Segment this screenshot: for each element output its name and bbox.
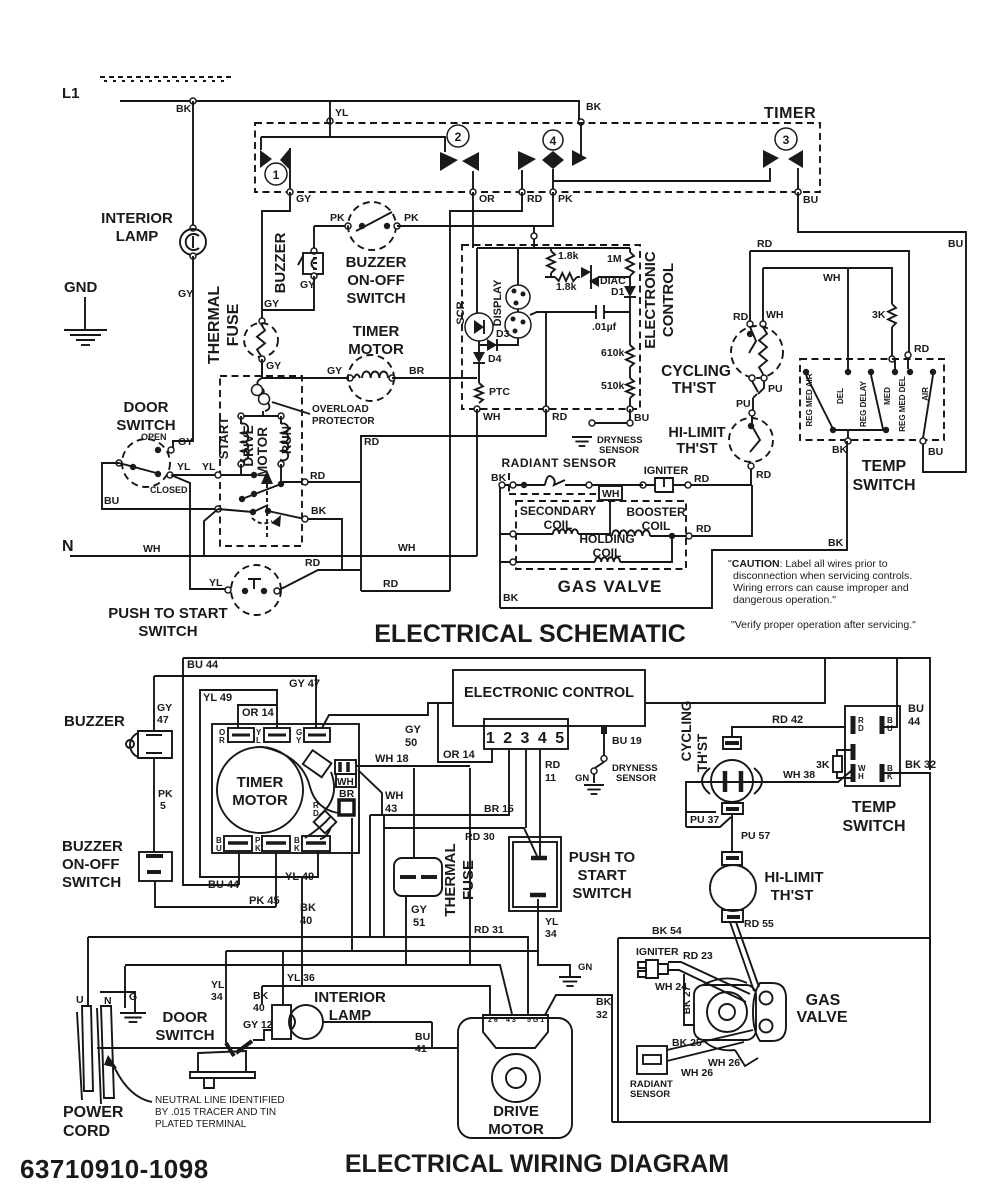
svg-text:.01µf: .01µf: [592, 321, 617, 333]
svg-text:U: U: [216, 844, 222, 853]
svg-text:BK: BK: [176, 103, 192, 115]
timer contact 1 arrows: [260, 148, 290, 170]
svg-text:BK: BK: [300, 902, 316, 914]
svg-text:50: 50: [405, 737, 417, 749]
wire buzzer to switch: [153, 758, 155, 852]
svg-text:POWER: POWER: [63, 1104, 124, 1121]
run winding label: [279, 426, 294, 454]
svg-text:BK: BK: [832, 444, 848, 456]
wire label RD 42: [772, 714, 803, 726]
wire BU44 bottom label: [208, 879, 240, 891]
svg-text:THERMAL: THERMAL: [206, 286, 223, 364]
node buzzer bottom: [311, 273, 317, 279]
temp switch label: [852, 458, 915, 494]
reg delay label: [859, 380, 868, 427]
holding coil label: [579, 532, 634, 560]
caution text: [728, 558, 888, 570]
svg-text:YL: YL: [545, 916, 559, 928]
svg-text:WH: WH: [337, 777, 354, 788]
centrifugal blade 2: [250, 505, 281, 527]
svg-text:PLATED TERMINAL: PLATED TERMINAL: [155, 1119, 247, 1130]
svg-text:610k: 610k: [601, 347, 625, 359]
push to start PS2: [509, 837, 561, 911]
wire d1 down: [629, 297, 631, 312]
wire label WH 38: [783, 769, 815, 781]
node BK temp: [832, 438, 851, 456]
svg-text:WH: WH: [483, 411, 501, 423]
node buzzer switch right: [394, 223, 400, 229]
svg-text:DOOR: DOOR: [124, 399, 169, 416]
wire d3 row: [479, 338, 518, 345]
svg-text:disconnection when servicing c: disconnection when servicing controls.: [733, 570, 912, 582]
power cord label: [63, 1104, 124, 1140]
svg-text:Y: Y: [296, 736, 302, 745]
booster coil L2: [612, 530, 650, 536]
svg-text:BK: BK: [503, 592, 519, 604]
capacitor C1: [596, 305, 604, 319]
terminal GY top: [296, 728, 330, 745]
node cycling left: [733, 311, 753, 327]
wire label GY tm: [327, 365, 342, 377]
wire label RD 55: [744, 918, 774, 930]
timer motor box w: [212, 724, 359, 853]
svg-text:TIMER: TIMER: [764, 105, 816, 122]
wire label WH 43: [385, 790, 403, 815]
neutral text: [155, 1095, 285, 1130]
node dryness left: [589, 420, 595, 426]
wire lamp to door switch: [173, 256, 193, 448]
svg-text:BK 32: BK 32: [905, 759, 936, 771]
wire EC left rail: [476, 248, 478, 314]
svg-text:DEL: DEL: [836, 388, 845, 404]
bk27 bracket: [684, 974, 694, 1025]
svg-text:RD: RD: [757, 238, 773, 250]
node buzzer top: [311, 248, 317, 254]
svg-text:NEUTRAL LINE IDENTIFIED: NEUTRAL LINE IDENTIFIED: [155, 1095, 285, 1106]
svg-text:SWITCH: SWITCH: [572, 885, 631, 902]
wire label YL door 2: [202, 461, 216, 473]
wire BU term down: [238, 851, 240, 885]
svg-text:START: START: [578, 867, 627, 884]
gas valve flange: [753, 983, 786, 1041]
wire label GY buzzer: [300, 279, 315, 291]
wire BU EC to dryness: [594, 409, 630, 423]
door switch prongs: [226, 1041, 252, 1056]
thermal fuse label vertical: [206, 286, 242, 364]
timer contact 2 stub: [472, 171, 474, 189]
wire booster out: [650, 535, 672, 537]
wire rd42: [732, 727, 845, 737]
wire secondary row: [516, 533, 553, 535]
svg-text:YL 36: YL 36: [287, 972, 315, 984]
svg-text:R: R: [219, 736, 225, 745]
svg-text:DRIVE: DRIVE: [241, 425, 256, 466]
wire wh18 drop: [469, 768, 471, 966]
svg-text:K: K: [294, 844, 300, 853]
wire label GY 50: [405, 724, 422, 749]
thermal fuse F1: [244, 323, 278, 357]
svg-text:TIMER: TIMER: [237, 774, 284, 791]
wire label GY 47 buzzer: [157, 702, 172, 726]
svg-text:REG MED DEL: REG MED DEL: [898, 376, 907, 432]
wire WH drop gas: [609, 500, 611, 536]
wire thermal fuse wires: [406, 768, 414, 965]
buzzer on-off switch label: [346, 254, 407, 307]
svg-text:BU: BU: [908, 703, 924, 715]
svg-text:GY 12: GY 12: [243, 1019, 273, 1031]
wire rd55: [730, 922, 759, 991]
svg-text:2: 2: [455, 130, 462, 144]
wire BU rail: [798, 192, 966, 472]
temp switch stubs: [895, 358, 908, 369]
overload protector label: [312, 404, 375, 427]
neutral pointer: [104, 1055, 152, 1102]
scr label: [455, 301, 467, 324]
temp switch dashed box: [800, 359, 944, 440]
temp switch label w: [842, 799, 905, 835]
svg-text:1: 1: [273, 168, 280, 182]
ptc label: [489, 386, 510, 398]
wire label BK 40 mid: [300, 902, 316, 927]
svg-text:HI-LIMIT: HI-LIMIT: [764, 869, 823, 886]
wire BK drop to contact 4: [580, 122, 582, 156]
door switch label w: [155, 1009, 214, 1044]
svg-text:START: START: [216, 417, 231, 459]
wire label BR tm: [409, 365, 425, 377]
svg-text:BUZZER: BUZZER: [346, 254, 407, 271]
display lamp A: [506, 285, 530, 309]
cycling label w: [679, 701, 710, 773]
wire RD mid row: [361, 590, 450, 592]
wire label OR 14 t: [242, 707, 275, 719]
temp 3K resistor: [816, 750, 851, 778]
wire N rail: [70, 555, 477, 557]
svg-text:BK: BK: [491, 472, 507, 484]
wire run to RD row: [280, 464, 282, 482]
node tm right: [389, 375, 395, 381]
timer motor label w: [232, 774, 288, 809]
node PK timer: [550, 189, 573, 205]
resistor 1.8k horizontal: [555, 273, 577, 281]
part number title: [20, 1154, 209, 1184]
svg-text:GY: GY: [178, 436, 193, 448]
buzzer on-off S4: [139, 852, 172, 881]
svg-text:WH: WH: [823, 272, 841, 284]
timer contact 1 wire: [261, 137, 290, 189]
svg-text:1M: 1M: [607, 253, 622, 265]
wire WH18: [356, 765, 470, 767]
node BK row: [302, 516, 308, 522]
wire label PK left: [330, 212, 345, 224]
scr U2: [465, 313, 493, 341]
svg-text:BU: BU: [803, 194, 818, 206]
svg-text:2 6: 2 6: [488, 1017, 498, 1024]
svg-text:YL: YL: [202, 461, 216, 473]
svg-text:RD: RD: [527, 193, 543, 205]
temp switch bottom bar: [830, 427, 889, 440]
svg-text:40: 40: [253, 1002, 265, 1014]
temp switch box w: [845, 706, 900, 786]
title electrical wiring diagram: [345, 1150, 729, 1178]
temp terminal WH: [853, 764, 866, 782]
push to start label: [108, 605, 227, 640]
gas valve label w: [797, 992, 848, 1026]
wire bu44 right: [884, 659, 897, 727]
push to start S3: [231, 565, 281, 615]
svg-text:IGNITER: IGNITER: [636, 946, 679, 958]
timer curves: [262, 747, 338, 838]
wire YL drop: [329, 101, 331, 137]
junction BK blade: [265, 508, 271, 514]
resistor 1.8k vertical: [547, 248, 555, 277]
svg-text:RD: RD: [545, 759, 561, 771]
drive motor label vertical: [241, 425, 270, 477]
gas valve label: [558, 577, 663, 596]
timer contact 3 stub: [797, 168, 799, 189]
svg-text:RD 55: RD 55: [744, 918, 774, 930]
node GY timer: [287, 189, 311, 205]
radiant sensor RS1: [510, 476, 565, 488]
wire BU into blade: [218, 509, 253, 512]
wire label YL 34 ps: [545, 916, 559, 940]
svg-text:VALVE: VALVE: [797, 1009, 848, 1026]
wire OR drop: [472, 192, 474, 248]
start winding coil: [241, 416, 248, 465]
wire label YL 36: [287, 972, 315, 984]
svg-text:41: 41: [415, 1043, 427, 1055]
title electrical schematic: [374, 620, 686, 648]
svg-text:REG DELAY: REG DELAY: [859, 380, 868, 427]
wire overload to windings: [241, 411, 281, 416]
buzzer label vertical: [272, 232, 289, 293]
wire BU door switch: [102, 463, 218, 509]
svg-text:RD: RD: [364, 436, 380, 448]
wire timer inner bottom: [553, 168, 770, 181]
node OR timer: [470, 189, 495, 205]
terminal PK bottom: [255, 836, 290, 853]
dryness ground: [572, 437, 592, 446]
svg-text:SCR: SCR: [455, 301, 467, 324]
buzzer B1: [298, 253, 323, 274]
hi-limit label w: [764, 869, 823, 904]
svg-text:BU: BU: [928, 446, 943, 458]
svg-text:dangerous operation.": dangerous operation.": [733, 594, 836, 606]
wire bu41 row right: [432, 1047, 458, 1049]
svg-text:RD: RD: [305, 557, 321, 569]
wire fuse to motor box: [261, 359, 263, 378]
svg-text:D1: D1: [611, 286, 625, 298]
wire RD diamond out: [320, 827, 331, 839]
wire gy12 lamp: [253, 1030, 273, 1040]
caution text 3: [733, 582, 909, 594]
svg-text:CYCLING: CYCLING: [679, 701, 694, 762]
wire label YL 49 top: [203, 692, 232, 704]
wire motor bk32: [545, 995, 612, 1122]
svg-text:H: H: [858, 772, 864, 781]
interior lamp L4: [272, 1005, 323, 1039]
hi-limit label: [668, 425, 725, 457]
node label BK left: [176, 103, 192, 115]
wire YL49: [200, 690, 302, 877]
temp switch terminals: [803, 369, 936, 375]
diode D3 label: [496, 328, 510, 340]
booster coil label: [626, 505, 686, 533]
timer contact 4 stubs: [522, 169, 553, 189]
svg-text:ELECTRICAL WIRING DIAGRAM: ELECTRICAL WIRING DIAGRAM: [345, 1150, 729, 1178]
power cord bar extra: [77, 1008, 101, 1104]
wire top dotted remnant: [100, 77, 232, 81]
radiant sensor RS2: [637, 1046, 667, 1074]
svg-text:YL: YL: [211, 979, 225, 991]
svg-text:WH: WH: [602, 488, 620, 500]
dryness sensor label w: [612, 763, 658, 784]
svg-text:GY 47: GY 47: [289, 678, 320, 690]
svg-text:BU 44: BU 44: [208, 879, 240, 891]
node RD row: [302, 479, 308, 485]
wire timer inner top: [261, 137, 445, 152]
svg-text:TEMP: TEMP: [862, 458, 907, 475]
svg-text:CONTROL: CONTROL: [660, 263, 677, 337]
terminal BU bottom: [216, 836, 252, 853]
svg-text:TH'ST: TH'ST: [672, 380, 717, 397]
svg-text:RD: RD: [552, 411, 568, 423]
wire label BK 32 right: [905, 759, 936, 771]
wire br15 row: [352, 749, 509, 951]
timer contact 4 diamond: [542, 151, 564, 169]
svg-text:BR: BR: [409, 365, 425, 377]
svg-text:BUZZER: BUZZER: [62, 838, 123, 855]
svg-text:RD 42: RD 42: [772, 714, 803, 726]
svg-text:GND: GND: [64, 279, 98, 296]
svg-text:INTERIOR: INTERIOR: [314, 989, 386, 1006]
svg-text:RD: RD: [310, 470, 326, 482]
wire label RD motor: [310, 470, 326, 482]
node tm left: [347, 375, 353, 381]
door switch left node: [116, 460, 122, 466]
wire label BK 40 lamp: [253, 990, 269, 1014]
caution text 2: [733, 570, 912, 582]
svg-text:CORD: CORD: [63, 1123, 110, 1140]
node WH EC: [474, 406, 501, 423]
timer cam: [303, 750, 332, 777]
wire PK buzzer to switch: [314, 225, 348, 227]
svg-text:WH: WH: [398, 542, 416, 554]
cycling thermostat TH3: [702, 737, 762, 814]
buzzer on-off label w: [62, 838, 123, 891]
resistor 1M label: [607, 253, 622, 265]
power cord N box: [100, 992, 135, 1012]
wire tm to EC: [392, 377, 477, 379]
wire label PK right: [404, 212, 419, 224]
timer contact 3 circle: [775, 128, 797, 150]
svg-text:4: 4: [550, 134, 557, 148]
wire label RD rail: [757, 238, 773, 250]
svg-text:PK: PK: [404, 212, 419, 224]
timer contact 4 circle: [543, 130, 563, 150]
wire label RD push: [305, 557, 321, 569]
node dryness right: [627, 420, 633, 426]
power cord bar N: [101, 1006, 114, 1098]
dryness sensor w: [584, 744, 607, 794]
wire label GY door: [178, 436, 193, 448]
svg-text:WH 38: WH 38: [783, 769, 815, 781]
wire label GY fuse bottom: [266, 360, 281, 372]
svg-text:MED: MED: [883, 387, 892, 405]
node RD timer: [519, 189, 543, 205]
electronic control box w: [453, 670, 645, 726]
junction booster: [669, 533, 675, 539]
svg-text:BK: BK: [586, 101, 602, 113]
wire label RD 11: [545, 759, 561, 784]
lamp node bottom: [190, 253, 196, 259]
wire RD down to cycling: [749, 251, 751, 321]
wire label OR 14 right: [443, 749, 476, 761]
electronic control dashed box: [462, 245, 640, 409]
wire pu37 box: [686, 812, 731, 827]
node RD temp: [905, 343, 930, 358]
node 3K bottom: [889, 356, 895, 362]
wire label PK 5: [158, 788, 173, 812]
power cord ground: [120, 1013, 146, 1022]
svg-text:WH: WH: [385, 790, 403, 802]
diac label: [600, 275, 626, 287]
svg-text:LAMP: LAMP: [116, 228, 159, 245]
svg-text:RD 23: RD 23: [683, 950, 713, 962]
wire GY from timer: [262, 192, 290, 318]
wire BU into motor box: [204, 509, 218, 556]
wire scr down: [478, 341, 480, 352]
del label: [836, 388, 845, 404]
secondary coil label: [520, 504, 596, 532]
electronic control label w: [464, 685, 634, 701]
wire label BU 19: [612, 735, 642, 747]
svg-text:1.8k: 1.8k: [558, 250, 579, 262]
wire pu57: [731, 814, 733, 852]
display lamp B: [505, 312, 531, 338]
svg-text:PTC: PTC: [489, 386, 510, 398]
node label YL: [335, 107, 349, 119]
node radiant right: [586, 482, 592, 488]
svg-text:IGNITER: IGNITER: [644, 465, 689, 477]
svg-text:TEMP: TEMP: [852, 799, 897, 816]
svg-text:BU: BU: [948, 238, 963, 250]
door switch blade: [119, 463, 161, 477]
node start bottom: [238, 461, 244, 467]
svg-text:RADIANT SENSOR: RADIANT SENSOR: [501, 456, 616, 470]
svg-text:GY: GY: [327, 365, 342, 377]
dryness sensor label: [597, 435, 643, 456]
wire RD inside EC: [545, 312, 547, 409]
wire label WH 24: [655, 981, 687, 993]
wire label BU 41: [415, 1031, 430, 1055]
svg-text:YL: YL: [177, 461, 191, 473]
svg-text:GY: GY: [178, 288, 193, 300]
svg-text:SWITCH: SWITCH: [155, 1027, 214, 1044]
svg-text:510k: 510k: [601, 380, 625, 392]
terminal BR: [339, 800, 354, 815]
svg-text:PUSH TO START: PUSH TO START: [108, 605, 227, 622]
node secondary left: [510, 531, 516, 537]
node RD EC: [543, 406, 568, 423]
electronic control label vertical: [642, 251, 677, 349]
drive motor terminal block: [483, 1015, 548, 1048]
svg-text:SWITCH: SWITCH: [346, 290, 405, 307]
wire secondary row right: [578, 533, 610, 535]
wire br15 drop: [383, 815, 385, 937]
svg-text:PK: PK: [558, 193, 573, 205]
node cycling pu: [736, 398, 755, 416]
igniter G1: [645, 478, 685, 492]
